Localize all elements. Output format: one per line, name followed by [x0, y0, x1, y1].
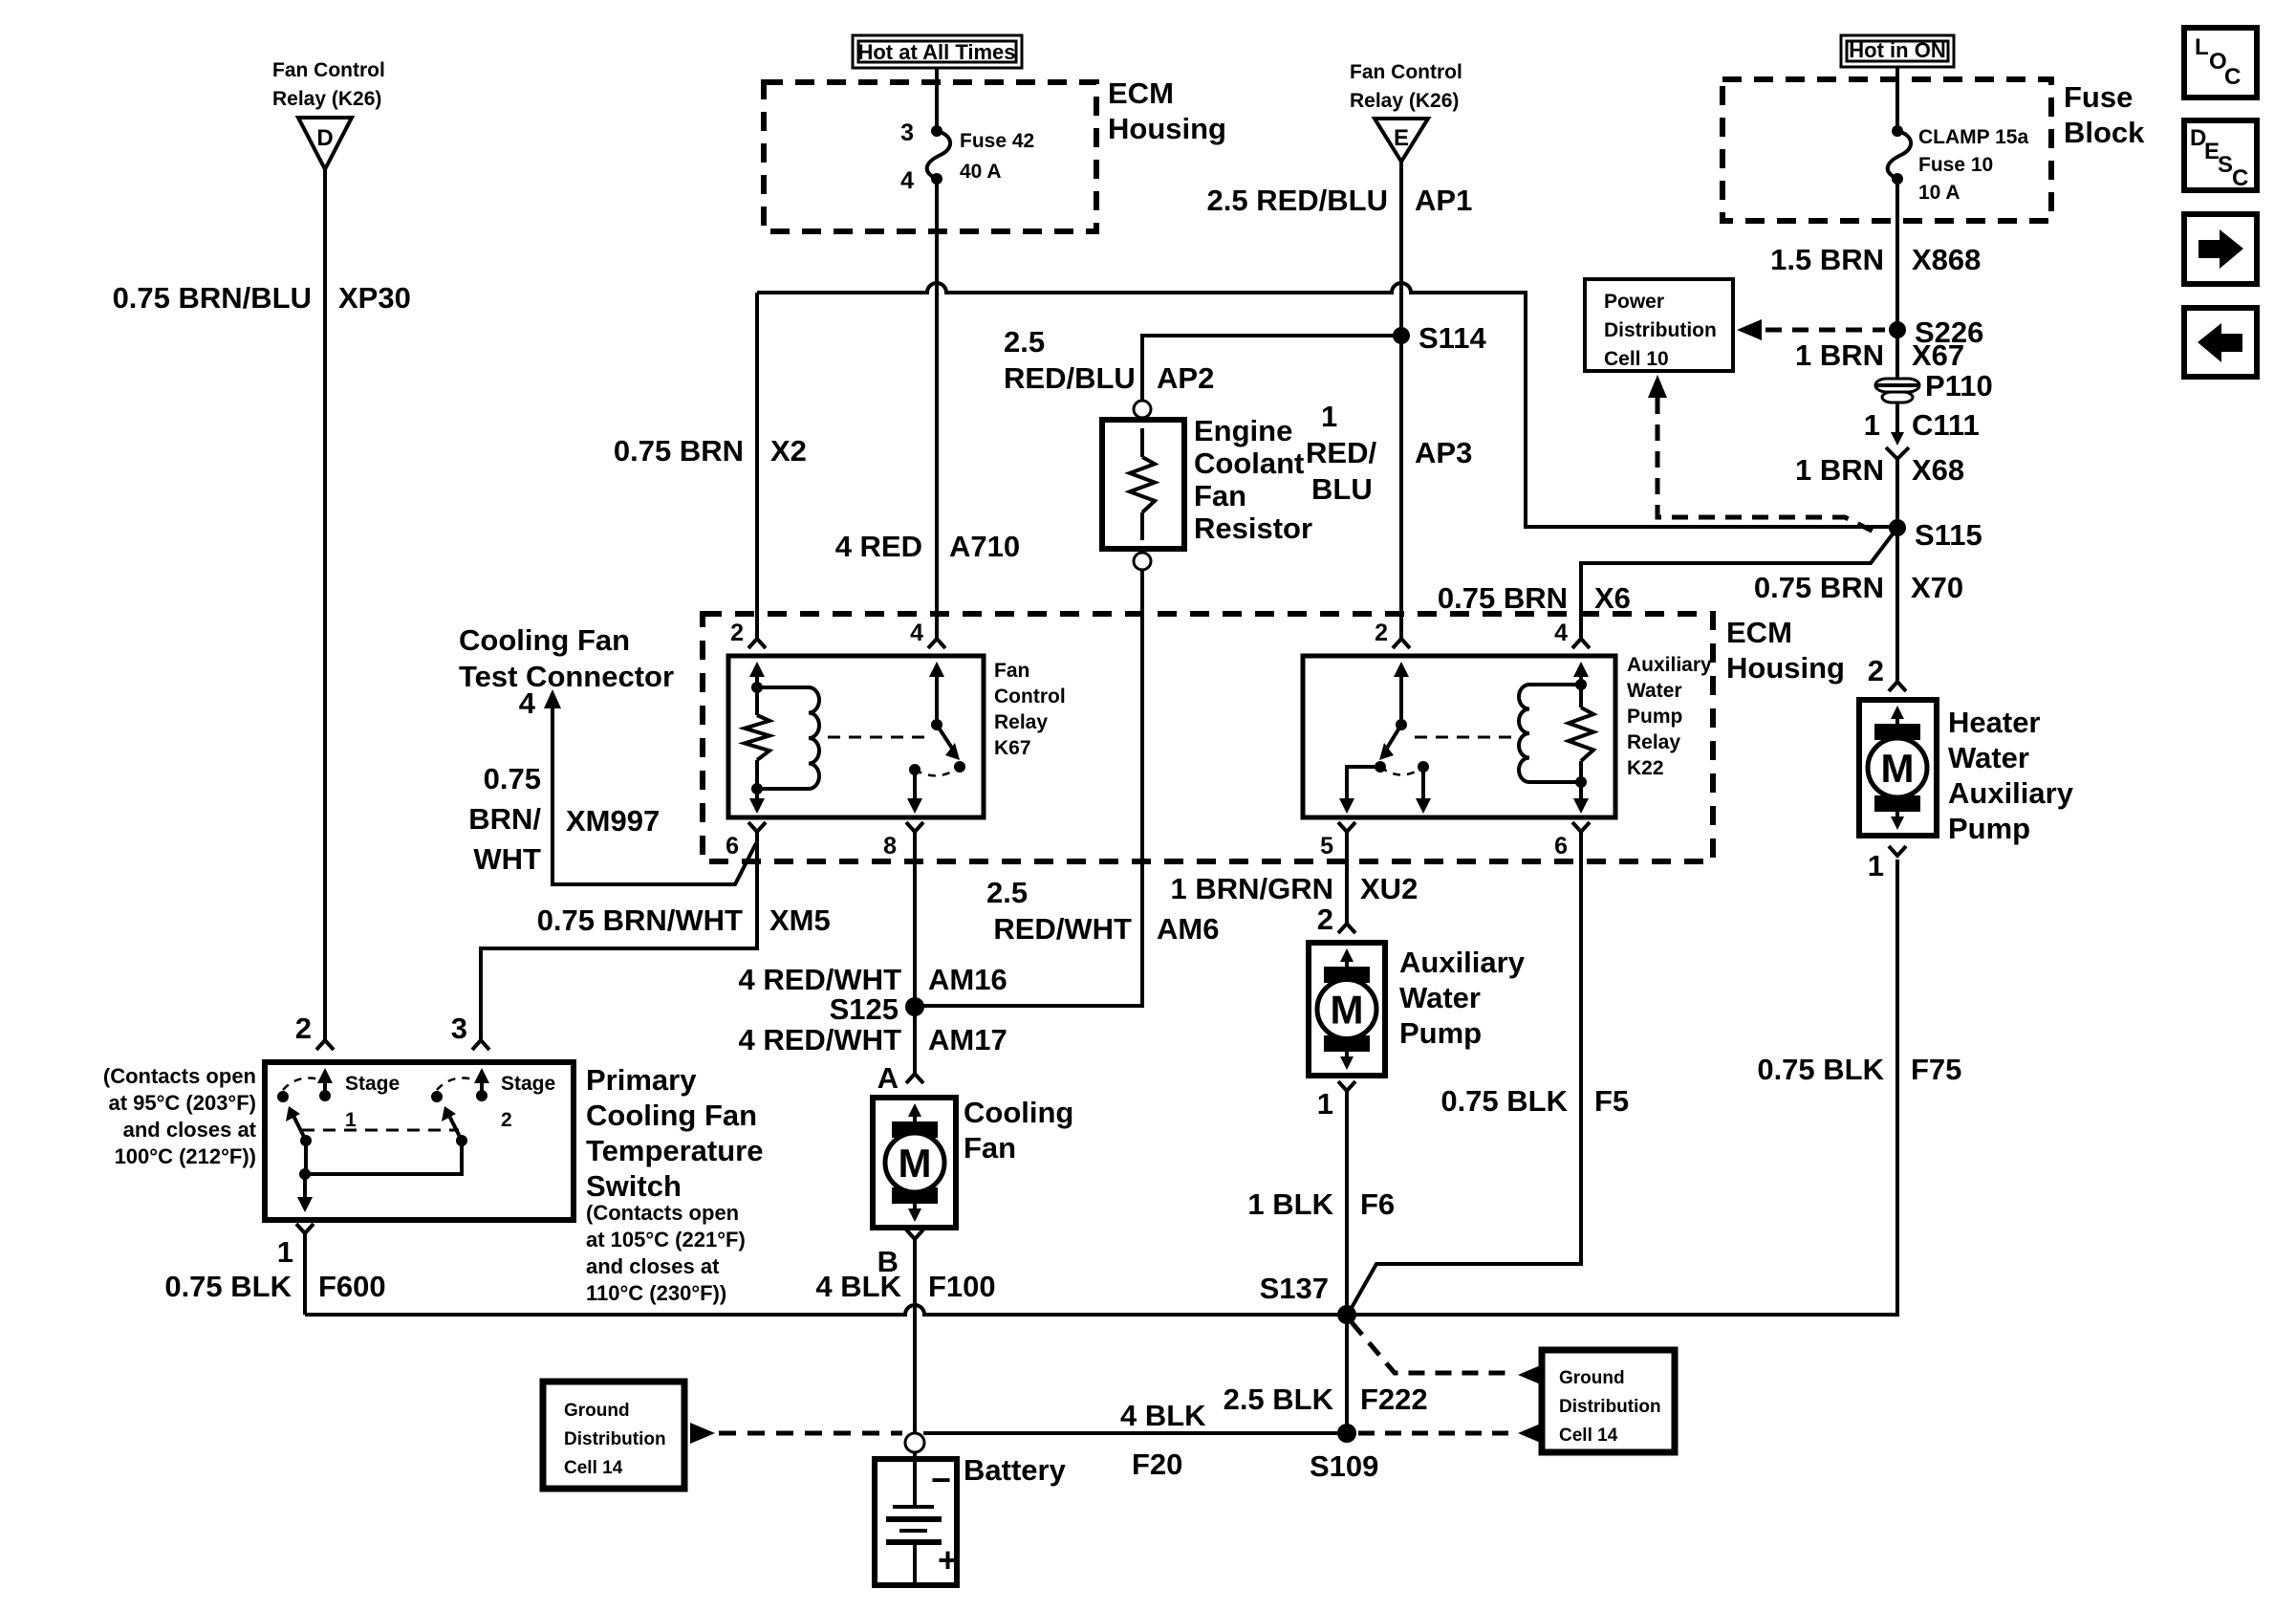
fuse F10 element — [1888, 131, 1911, 179]
svg-text:S137: S137 — [1260, 1272, 1329, 1305]
aux water pump pin 1 label — [1317, 1087, 1333, 1121]
auxiliary water pump motor M2 — [1309, 943, 1385, 1076]
svg-text:E: E — [1394, 125, 1409, 151]
wire XM5 from K67 pin 6 to temp switch pin 3 — [472, 822, 766, 1050]
svg-text:Distribution: Distribution — [564, 1429, 666, 1449]
svg-text:0.75 BRN: 0.75 BRN — [614, 434, 744, 468]
svg-text:Primary: Primary — [586, 1063, 697, 1097]
svg-text:2: 2 — [1375, 620, 1388, 646]
label Fuse 42 40 A — [960, 130, 1034, 183]
svg-text:1 BRN: 1 BRN — [1795, 338, 1884, 372]
wire X67 from S226 to P110 — [1895, 330, 1899, 379]
svg-text:K22: K22 — [1627, 757, 1664, 779]
svg-text:X70: X70 — [1911, 571, 1963, 604]
svg-text:M: M — [899, 1141, 932, 1186]
svg-text:0.75 BRN/WHT: 0.75 BRN/WHT — [537, 903, 743, 937]
engine coolant fan resistor R — [1102, 401, 1184, 570]
K22 coil shunt resistor — [1569, 685, 1593, 782]
connector triangle E (to Fan Control Relay K26) — [1350, 61, 1462, 162]
wire X6 from S115 to relay K22 pin 4 — [1572, 528, 1897, 648]
svg-text:Hot at All Times: Hot at All Times — [857, 40, 1015, 64]
svg-text:C111: C111 — [1912, 408, 1980, 442]
svg-text:Temperature: Temperature — [586, 1134, 764, 1167]
wire F600 from temp switch pin 1 to ground bus — [296, 1224, 314, 1315]
wire AP2 from S114 to engine coolant fan resistor — [1142, 336, 1401, 401]
cooling fan pin A label — [877, 1061, 899, 1095]
svg-text:1: 1 — [277, 1235, 293, 1269]
battery positive wire F20 — [923, 1431, 1337, 1435]
svg-text:Relay (K26): Relay (K26) — [272, 88, 381, 110]
svg-text:F600: F600 — [318, 1270, 386, 1303]
svg-text:Relay: Relay — [1627, 731, 1680, 753]
label Fan Control Relay K67 — [994, 660, 1066, 759]
K22 switch contact travel arc — [1380, 767, 1423, 775]
connector triangle D (to Fan Control Relay K26) — [272, 59, 385, 169]
svg-text:X6: X6 — [1594, 581, 1631, 615]
svg-text:Hot in ON: Hot in ON — [1849, 38, 1945, 62]
svg-text:Stage: Stage — [345, 1073, 400, 1095]
svg-text:Pump: Pump — [1627, 706, 1682, 728]
dashed reference from Power Distribution box down to S115 — [1648, 375, 1879, 534]
label 4 BLK F20 — [1120, 1399, 1206, 1481]
svg-text:2.5 BLK: 2.5 BLK — [1224, 1382, 1334, 1416]
svg-text:3: 3 — [900, 120, 914, 146]
ECM housing dashed box (relays) — [703, 614, 1713, 861]
K22 dashed actuation link — [1415, 736, 1512, 739]
label Auxiliary Water Pump — [1399, 946, 1526, 1050]
temp switch stage 2 fixed contact — [431, 1091, 443, 1102]
Power Distribution Cell 10 box — [1585, 279, 1733, 371]
label 4 RED/WHT AM17 — [739, 1023, 1007, 1056]
svg-text:Fan Control: Fan Control — [1350, 61, 1462, 83]
svg-text:F100: F100 — [928, 1270, 996, 1303]
svg-text:Distribution: Distribution — [1559, 1397, 1661, 1417]
K22 switch output contact — [1375, 761, 1386, 773]
aux water pump pin 2 label — [1317, 903, 1333, 936]
svg-text:XU2: XU2 — [1360, 872, 1418, 905]
svg-text:Control: Control — [994, 686, 1066, 708]
svg-text:4 BLK: 4 BLK — [1120, 1399, 1206, 1432]
svg-text:Fan: Fan — [994, 660, 1029, 682]
svg-text:ECM: ECM — [1108, 76, 1174, 110]
label 2.5 RED/BLU AP2 — [1004, 325, 1214, 395]
svg-text:Fan Control: Fan Control — [272, 59, 385, 81]
label Fuse Block — [2064, 80, 2145, 149]
node S114 — [1393, 321, 1486, 355]
svg-text:40 A: 40 A — [960, 161, 1002, 183]
fuse F42 terminal pin 4 — [900, 167, 942, 194]
svg-text:Relay (K26): Relay (K26) — [1350, 90, 1459, 112]
svg-text:Ground: Ground — [1559, 1368, 1625, 1388]
label CLAMP 15a Fuse 10 10 A — [1918, 126, 2028, 204]
wire from Hot at All Times into fuse 42 — [935, 68, 939, 127]
K22 switch normally-open contact — [1418, 761, 1429, 773]
icon LOC — [2184, 28, 2257, 98]
svg-text:XM997: XM997 — [566, 804, 660, 838]
wire XU2 from K22 pin 5 to auxiliary water pump pin 2 — [1338, 822, 1355, 933]
temp switch pin 1 exit arrow — [297, 1174, 313, 1212]
svg-text:X868: X868 — [1912, 243, 1981, 276]
node S226 — [1889, 316, 1983, 349]
label Stage 1 — [345, 1073, 400, 1131]
svg-text:Test Connector: Test Connector — [459, 660, 674, 693]
svg-text:(Contacts open: (Contacts open — [103, 1064, 256, 1088]
label 0.75 BRN/WHT XM997 — [468, 762, 660, 876]
Ground Distribution Cell 14 box (left) — [543, 1382, 684, 1489]
label contacts open 105C — [586, 1201, 746, 1305]
svg-text:Resistor: Resistor — [1194, 512, 1312, 545]
K22 pin 4 coil arrow — [1573, 662, 1589, 685]
svg-text:A710: A710 — [949, 530, 1020, 563]
wire X70 from S115 down to heater water auxiliary pump pin 2 — [1889, 528, 1906, 691]
svg-text:2.5: 2.5 — [1004, 325, 1045, 359]
K67 switch pivot — [931, 719, 942, 730]
K22 pin 6 exit arrow — [1573, 782, 1589, 814]
svg-text:S114: S114 — [1419, 321, 1486, 355]
K67 pin 6 label — [726, 833, 739, 860]
temp switch pin 3 label — [451, 1012, 467, 1045]
K67 coil bottom junction — [751, 783, 763, 795]
label 4 BLK F100 — [815, 1270, 995, 1303]
svg-text:1: 1 — [345, 1109, 357, 1131]
svg-text:X68: X68 — [1912, 453, 1964, 487]
svg-text:X67: X67 — [1912, 338, 1964, 372]
label Cooling Fan Test Connector — [459, 623, 674, 693]
relay K22 box — [1303, 656, 1615, 817]
heater pump pin 1 label — [1868, 849, 1884, 882]
svg-text:P110: P110 — [1925, 369, 1993, 403]
test connector pin 4 label — [519, 686, 536, 720]
temp switch mechanical link — [302, 1129, 459, 1132]
svg-text:Housing: Housing — [1108, 112, 1226, 145]
svg-text:Fuse 42: Fuse 42 — [960, 130, 1034, 152]
Hot in ON header box — [1841, 35, 1954, 67]
svg-text:S115: S115 — [1915, 518, 1982, 552]
svg-text:Coolant: Coolant — [1194, 446, 1304, 480]
wire AM16/AM17 from K67 pin 8 to cooling fan pin A — [906, 822, 923, 1083]
label 0.75 BRN X70 — [1754, 571, 1963, 604]
label ECM Housing (fuse block) — [1108, 76, 1226, 145]
svg-text:Water: Water — [1948, 741, 2029, 774]
temp switch stage 1 fixed contact — [277, 1091, 289, 1102]
svg-text:4 RED: 4 RED — [835, 530, 922, 563]
Ground Distribution Cell 14 box (right) — [1542, 1350, 1675, 1452]
K67 dashed actuation link — [828, 736, 929, 739]
svg-text:10 A: 10 A — [1918, 182, 1960, 204]
wire X868 from fuse 10 down to S226 — [1895, 179, 1899, 330]
fuse block dashed box — [1722, 79, 2051, 221]
temp switch pin 2 label — [295, 1012, 312, 1045]
svg-text:Block: Block — [2064, 116, 2145, 149]
svg-text:4: 4 — [910, 620, 923, 646]
svg-text:F222: F222 — [1360, 1382, 1428, 1416]
svg-text:F5: F5 — [1594, 1084, 1629, 1118]
svg-text:Auxiliary: Auxiliary — [1399, 946, 1526, 979]
K22 switch pivot — [1396, 719, 1407, 730]
svg-text:4 BLK: 4 BLK — [815, 1270, 901, 1303]
svg-text:0.75 BRN: 0.75 BRN — [1754, 571, 1884, 604]
svg-text:4: 4 — [519, 686, 536, 720]
svg-text:3: 3 — [451, 1012, 467, 1045]
svg-text:Water: Water — [1399, 981, 1481, 1014]
svg-text:Housing: Housing — [1726, 651, 1845, 685]
svg-text:X2: X2 — [770, 434, 807, 468]
svg-text:and closes at: and closes at — [586, 1254, 720, 1278]
K22 pin 6 label — [1554, 833, 1568, 860]
svg-text:2: 2 — [1317, 903, 1333, 936]
svg-text:Pump: Pump — [1399, 1016, 1482, 1050]
node S109 — [1310, 1424, 1378, 1483]
svg-text:ECM: ECM — [1726, 616, 1792, 649]
cooling fan test connector arrow — [544, 689, 756, 884]
svg-text:RED/: RED/ — [1306, 436, 1376, 469]
svg-text:CLAMP 15a: CLAMP 15a — [1918, 126, 2028, 148]
K67 pin 6 exit arrow — [749, 789, 765, 814]
label 2.5 RED/WHT AM6 — [986, 876, 1219, 946]
svg-text:F20: F20 — [1132, 1448, 1182, 1481]
label 0.75 BLK F75 — [1757, 1053, 1961, 1086]
wire AP1/AP3 from triangle E down to relay K22 pin 2 — [1393, 162, 1410, 648]
svg-text:0.75 BLK: 0.75 BLK — [1757, 1053, 1884, 1086]
svg-text:L: L — [2195, 34, 2209, 60]
K22 pin 4 label — [1554, 620, 1568, 646]
svg-text:Ground: Ground — [564, 1401, 630, 1421]
svg-text:Stage: Stage — [501, 1073, 555, 1095]
icon back arrow — [2184, 308, 2257, 377]
label 0.75 BLK F5 — [1440, 1084, 1629, 1118]
svg-text:4: 4 — [1554, 620, 1568, 646]
svg-text:1.5 BRN: 1.5 BRN — [1770, 243, 1884, 276]
svg-text:1: 1 — [1321, 400, 1337, 433]
svg-text:S125: S125 — [830, 992, 899, 1026]
svg-text:XM5: XM5 — [769, 903, 831, 937]
svg-text:Battery: Battery — [964, 1453, 1067, 1487]
icon forward arrow — [2184, 214, 2257, 284]
svg-text:AM6: AM6 — [1157, 912, 1219, 946]
K22 coil winding — [1519, 685, 1581, 782]
svg-text:Relay: Relay — [994, 711, 1048, 733]
label 1 BLK F6 — [1247, 1187, 1395, 1221]
label Heater Water Auxiliary Pump — [1948, 706, 2074, 845]
label Engine Coolant Fan Resistor — [1194, 414, 1312, 545]
label 4 RED A710 — [835, 530, 1020, 563]
label Battery — [964, 1453, 1067, 1487]
temp switch stage 2 contact arrow — [474, 1068, 489, 1101]
K67 pin 4 label — [910, 620, 923, 646]
svg-text:Water: Water — [1627, 680, 1682, 702]
label ECM Housing (relay box) — [1726, 616, 1845, 685]
label 0.75 BRN/BLU XP30 — [113, 281, 411, 315]
svg-text:at 95°C (203°F): at 95°C (203°F) — [108, 1091, 256, 1115]
svg-text:1: 1 — [1317, 1087, 1333, 1121]
pass-through grommet P110 — [1875, 369, 1993, 403]
svg-text:C: C — [2224, 64, 2241, 90]
svg-text:2: 2 — [295, 1012, 312, 1045]
K22 unused contact exit arrow — [1416, 767, 1431, 814]
svg-text:4 RED/WHT: 4 RED/WHT — [739, 963, 902, 996]
temp switch stage 2 pivot — [456, 1135, 467, 1146]
svg-text:4 RED/WHT: 4 RED/WHT — [739, 1023, 902, 1056]
Hot at All Times header box — [853, 35, 1022, 68]
svg-text:F75: F75 — [1911, 1053, 1961, 1086]
svg-text:M: M — [1331, 988, 1364, 1033]
svg-text:Cell 14: Cell 14 — [564, 1458, 623, 1478]
svg-text:AP1: AP1 — [1415, 184, 1472, 217]
svg-text:Power: Power — [1604, 291, 1664, 313]
K67 coil top junction — [751, 682, 763, 693]
K67 coil shunt resistor — [745, 687, 769, 789]
fuse F10 terminal — [1892, 125, 1903, 137]
fuse F10 lower terminal — [1892, 173, 1903, 185]
primary cooling fan temperature switch box — [265, 1062, 574, 1220]
svg-text:Auxiliary: Auxiliary — [1948, 776, 2074, 810]
svg-text:Fuse 10: Fuse 10 — [1918, 154, 1993, 176]
heater water auxiliary pump pin 2 label — [1868, 654, 1884, 687]
temp switch common bus — [299, 1141, 462, 1180]
temp switch stage 1 travel arc — [283, 1078, 323, 1090]
svg-text:Distribution: Distribution — [1604, 319, 1717, 341]
svg-text:S109: S109 — [1310, 1449, 1378, 1483]
svg-text:RED/BLU: RED/BLU — [1004, 361, 1136, 395]
svg-text:Fan: Fan — [1194, 479, 1246, 512]
label 0.75 BLK F600 — [164, 1270, 385, 1303]
fuse F42 terminal pin 3 — [900, 120, 942, 146]
svg-text:and closes at: and closes at — [123, 1118, 257, 1142]
label Cooling Fan — [964, 1096, 1073, 1165]
svg-text:1 BRN/GRN: 1 BRN/GRN — [1170, 872, 1333, 905]
K67 switch arm — [937, 725, 960, 760]
battery B1 — [875, 1452, 958, 1585]
label 0.75 BRN X2 — [614, 434, 807, 468]
label 2.5 BLK F222 — [1224, 1382, 1428, 1416]
wire F6 from aux water pump pin 1 to S137 — [1338, 1081, 1355, 1315]
svg-text:AP2: AP2 — [1157, 361, 1214, 395]
label 1.5 BRN X868 — [1770, 243, 1981, 276]
wire F100 from cooling fan pin B to battery — [906, 1230, 923, 1433]
K67 coil pin 2 contact arrow — [749, 662, 765, 687]
label 1 BRN X67 — [1795, 338, 1964, 372]
svg-text:4: 4 — [900, 167, 914, 194]
K67 pin 2 label — [730, 620, 744, 646]
svg-text:Fuse: Fuse — [2064, 80, 2133, 114]
label 1 BRN X68 — [1795, 453, 1964, 487]
node S137 — [1260, 1272, 1356, 1324]
svg-text:Heater: Heater — [1948, 706, 2041, 739]
svg-text:5: 5 — [1320, 833, 1333, 860]
K67 switch output contact — [909, 764, 921, 775]
dashed ground reference from S109 — [1358, 1423, 1543, 1444]
wire F222 from S137 to S109 — [1345, 1315, 1349, 1433]
K22 coil top junction — [1575, 679, 1587, 690]
svg-text:+: + — [938, 1540, 958, 1579]
cooling fan pin B label — [877, 1245, 899, 1278]
wire AM6 from resistor down to S125 — [923, 570, 1142, 1006]
svg-text:110°C (230°F)): 110°C (230°F)) — [586, 1281, 726, 1305]
svg-text:0.75: 0.75 — [484, 762, 541, 795]
temp switch stage 1 pivot — [300, 1135, 312, 1146]
label 1 RED/BLU AP3 — [1306, 400, 1472, 506]
K22 pin 2 label — [1375, 620, 1388, 646]
svg-text:6: 6 — [1554, 833, 1568, 860]
svg-text:2: 2 — [501, 1109, 512, 1131]
svg-text:AM16: AM16 — [928, 963, 1007, 996]
svg-text:D: D — [316, 125, 333, 151]
svg-text:Cell 14: Cell 14 — [1559, 1426, 1618, 1446]
svg-text:BLU: BLU — [1311, 472, 1373, 506]
K67 pin 8 label — [883, 833, 897, 860]
heater pump pin 1 fork — [1889, 846, 1906, 856]
label 2.5 RED/BLU AP1 — [1207, 184, 1473, 217]
wire XP30 from triangle D down to temp switch pin 2 — [316, 169, 334, 1050]
svg-text:Cell 10: Cell 10 — [1604, 348, 1669, 370]
svg-text:M: M — [1881, 746, 1915, 791]
K22 coil bottom junction — [1575, 776, 1587, 788]
K22 pin 2 switch arrow — [1394, 662, 1409, 725]
relay K67 box — [728, 656, 984, 817]
node S125 — [830, 992, 924, 1026]
svg-text:0.75 BLK: 0.75 BLK — [164, 1270, 292, 1303]
svg-text:F6: F6 — [1360, 1187, 1395, 1221]
ECM housing dashed box (fuse 42) — [764, 82, 1096, 231]
svg-text:BRN/: BRN/ — [468, 802, 541, 836]
temp switch stage 1 arm — [286, 1106, 306, 1141]
svg-text:Pump: Pump — [1948, 812, 2030, 845]
label Primary Cooling Fan Temperature Switch — [586, 1063, 764, 1203]
svg-text:K67: K67 — [994, 737, 1031, 759]
K67 pin 4 switch arrow — [929, 662, 944, 725]
temp switch stage 2 travel arc — [437, 1078, 477, 1090]
K67 switch normally-open contact — [954, 761, 965, 773]
K67 coil winding — [757, 687, 819, 789]
icon DESC — [2184, 120, 2257, 191]
battery terminal — [905, 1433, 924, 1452]
svg-text:AP3: AP3 — [1415, 436, 1472, 469]
temp switch stage 1 contact arrow — [317, 1068, 333, 1101]
svg-text:XP30: XP30 — [338, 281, 411, 315]
svg-text:1: 1 — [1868, 849, 1884, 882]
svg-text:Auxiliary: Auxiliary — [1627, 654, 1712, 676]
K22 pin 5 label — [1320, 833, 1333, 860]
svg-text:1: 1 — [1864, 408, 1880, 442]
svg-text:Cooling Fan: Cooling Fan — [586, 1099, 757, 1132]
ground bus wire F600/F20 with hop over battery wire — [305, 860, 1897, 1315]
K22 pin 5 exit arrow — [1339, 767, 1380, 814]
svg-text:WHT: WHT — [473, 842, 541, 876]
svg-text:−: − — [931, 1460, 951, 1499]
temp switch stage 2 arm — [442, 1106, 462, 1141]
dashed ground reference from S137 — [1352, 1322, 1543, 1385]
wire from Hot in ON into fuse 10 — [1895, 67, 1899, 127]
svg-text:6: 6 — [726, 833, 739, 860]
svg-text:2.5: 2.5 — [986, 876, 1028, 909]
wire BRN bus from X2 corner to S115 (hops over A710 and AP3) — [757, 283, 1891, 527]
wire F5 from K22 pin 6 to S137 — [1349, 822, 1590, 1313]
svg-text:2: 2 — [1868, 654, 1884, 687]
cooling fan motor M1 — [873, 1098, 956, 1228]
svg-text:Switch: Switch — [586, 1169, 682, 1203]
K67 pin 8 exit arrow — [907, 770, 922, 814]
label Auxiliary Water Pump Relay K22 — [1627, 654, 1712, 779]
K67 switch contact travel arc — [915, 767, 960, 775]
svg-text:A: A — [877, 1061, 899, 1095]
label 0.75 BRN X6 — [1438, 581, 1631, 615]
temp switch pin 1 label — [277, 1235, 293, 1269]
label Stage 2 — [501, 1073, 555, 1131]
wire X2 down to relay K67 pin 2 — [748, 293, 766, 648]
wire A710 from fuse 42 down to relay K67 pin 4 — [928, 179, 945, 648]
svg-text:0.75 BRN: 0.75 BRN — [1438, 581, 1568, 615]
svg-text:2: 2 — [730, 620, 744, 646]
